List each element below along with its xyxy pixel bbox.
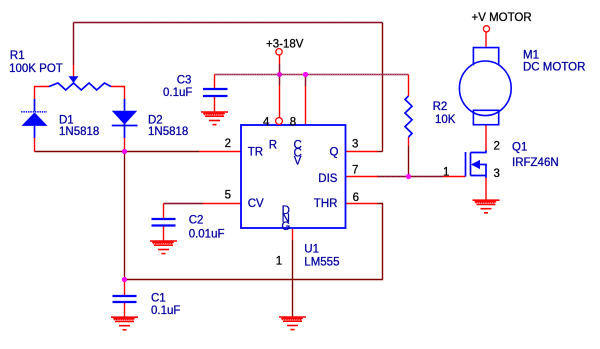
svg-text:TR: TR: [248, 146, 263, 158]
svg-text:5: 5: [225, 190, 231, 202]
svg-text:3: 3: [494, 168, 500, 180]
svg-text:0.1uF: 0.1uF: [163, 87, 192, 99]
svg-text:4: 4: [263, 116, 270, 128]
svg-text:0.01uF: 0.01uF: [189, 228, 225, 240]
svg-text:1N5818: 1N5818: [59, 126, 99, 138]
svg-text:CV: CV: [248, 198, 264, 210]
svg-text:IRFZ46N: IRFZ46N: [512, 157, 559, 169]
svg-text:DIS: DIS: [318, 173, 338, 185]
svg-text:R1: R1: [10, 50, 25, 62]
svg-text:M1: M1: [523, 50, 539, 62]
svg-text:R: R: [269, 140, 277, 152]
svg-text:6: 6: [353, 192, 359, 204]
svg-text:100K POT: 100K POT: [9, 63, 63, 75]
svg-text:2: 2: [225, 138, 231, 150]
svg-text:0.1uF: 0.1uF: [151, 305, 180, 317]
svg-text:1N5818: 1N5818: [148, 126, 188, 138]
svg-text:C3: C3: [177, 74, 192, 86]
svg-text:R2: R2: [433, 101, 448, 113]
svg-text:C2: C2: [189, 214, 204, 226]
svg-text:D2: D2: [148, 114, 163, 126]
svg-text:10K: 10K: [435, 114, 456, 126]
svg-text:3: 3: [352, 138, 358, 150]
svg-text:DC MOTOR: DC MOTOR: [523, 62, 585, 74]
svg-text:Q: Q: [330, 146, 339, 158]
svg-text:G: G: [281, 221, 290, 233]
svg-text:7: 7: [352, 165, 358, 177]
svg-text:Q1: Q1: [512, 142, 527, 154]
svg-text:+V MOTOR: +V MOTOR: [472, 12, 532, 24]
svg-text:U1: U1: [304, 244, 319, 256]
svg-text:C1: C1: [151, 293, 166, 305]
svg-text:+3-18V: +3-18V: [266, 38, 304, 50]
svg-text:1: 1: [443, 167, 449, 179]
svg-text:2: 2: [494, 141, 500, 153]
svg-text:THR: THR: [314, 198, 338, 210]
svg-text:1: 1: [276, 255, 282, 267]
svg-text:D1: D1: [59, 114, 74, 126]
svg-text:V: V: [294, 155, 302, 167]
svg-text:LM555: LM555: [304, 257, 339, 269]
svg-text:8: 8: [290, 117, 296, 129]
